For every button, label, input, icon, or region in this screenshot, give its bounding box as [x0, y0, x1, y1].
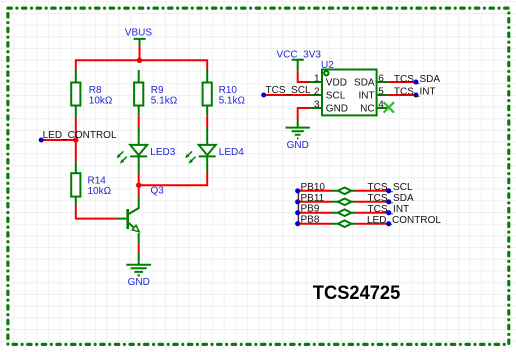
- svg-text:5.1kΩ: 5.1kΩ: [219, 95, 246, 106]
- svg-text:3: 3: [314, 100, 320, 111]
- svg-text:PB9: PB9: [301, 204, 320, 215]
- svg-text:VCC_3V3: VCC_3V3: [277, 50, 322, 61]
- svg-text:5: 5: [378, 87, 384, 98]
- svg-text:GND: GND: [128, 277, 150, 288]
- svg-text:TCS_SCL: TCS_SCL: [368, 182, 413, 193]
- svg-text:LED_CONTROL: LED_CONTROL: [367, 215, 441, 226]
- svg-text:INT: INT: [358, 90, 374, 101]
- svg-text:TCS_INT: TCS_INT: [368, 204, 410, 215]
- svg-text:GND: GND: [326, 103, 348, 114]
- svg-text:PB10: PB10: [301, 182, 326, 193]
- svg-text:5.1kΩ: 5.1kΩ: [151, 95, 178, 106]
- svg-text:GND: GND: [287, 140, 309, 151]
- svg-text:LED4: LED4: [219, 147, 244, 158]
- svg-text:VDD: VDD: [326, 77, 347, 88]
- svg-text:2: 2: [314, 87, 320, 98]
- svg-text:VBUS: VBUS: [125, 27, 153, 38]
- svg-text:TCS_INT: TCS_INT: [394, 87, 436, 98]
- svg-text:LED_CONTROL: LED_CONTROL: [43, 130, 117, 141]
- svg-text:LED3: LED3: [150, 147, 175, 158]
- svg-text:4: 4: [378, 100, 384, 111]
- svg-text:U2: U2: [321, 60, 334, 71]
- svg-text:6: 6: [378, 74, 384, 85]
- svg-text:TCS_SDA: TCS_SDA: [368, 193, 414, 204]
- svg-text:10kΩ: 10kΩ: [88, 186, 112, 197]
- svg-text:SCL: SCL: [326, 90, 346, 101]
- svg-text:TCS_SDA: TCS_SDA: [394, 74, 440, 85]
- svg-text:SDA: SDA: [354, 77, 375, 88]
- svg-text:TCS_SCL: TCS_SCL: [266, 85, 311, 96]
- svg-text:PB11: PB11: [301, 193, 325, 204]
- svg-text:TCS24725: TCS24725: [313, 283, 401, 304]
- svg-text:NC: NC: [360, 103, 374, 114]
- svg-text:Q3: Q3: [151, 186, 165, 197]
- svg-text:10kΩ: 10kΩ: [89, 95, 113, 106]
- svg-text:PB8: PB8: [301, 215, 320, 226]
- svg-text:1: 1: [314, 74, 320, 85]
